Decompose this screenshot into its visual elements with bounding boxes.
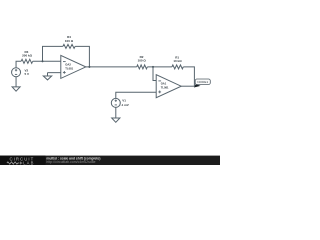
node A junction dot [41,60,43,62]
svg-text:OA1: OA1 [161,82,167,86]
op-amp U2 (OA1 TL081) [156,75,181,98]
svg-text:100 Ω: 100 Ω [65,39,74,43]
ground (V2) [12,87,20,91]
wire R3 to op-amp U1 inverting input [33,60,61,62]
wire V2 top to R3 [16,61,21,67]
wire V2 bottom [15,77,17,87]
voltage source V2 [12,68,21,77]
wire V1 top to op-amp U2 plus input [116,92,156,98]
svg-text:http://circuitlab.com/c4m62sd8: http://circuitlab.com/c4m62sd8e [46,160,95,164]
svg-text:200 kΩ: 200 kΩ [22,54,33,58]
CircuitLab logo zigzag [7,162,19,164]
svg-text:LAB: LAB [23,160,34,165]
node flag NODE1 tail [194,84,201,88]
svg-text:OA2: OA2 [65,62,71,66]
wire op-amp U1 plus input to ground [48,72,61,74]
resistor R2 [137,65,148,69]
resistor R1 [172,65,183,69]
CircuitLab logo battery [20,162,22,165]
svg-text:NODE1: NODE1 [197,80,208,84]
node B junction dot [152,66,154,68]
wire R4 to output node of U1 [75,46,89,67]
svg-text:-1 mV: -1 mV [121,103,129,107]
wire op-amp U2 output [181,85,194,87]
wire node B down to op-amp U2 inverting input [153,67,156,81]
node flag NODE1 box [195,79,210,85]
bottom bar [0,156,220,165]
node output U1 junction dot [88,66,90,68]
svg-text:TL081: TL081 [65,66,73,70]
wire V1 bottom [115,107,117,118]
ground (V1) [112,118,120,122]
resistor R4 [63,44,75,48]
logo dark box [0,156,46,165]
svg-text:10 kΩ: 10 kΩ [173,59,182,63]
svg-text:5 V: 5 V [25,72,30,76]
svg-text:100 Ω: 100 Ω [138,59,147,63]
svg-text:TL081: TL081 [161,86,169,90]
resistor R3 [21,59,33,63]
wire R1 to output of U2 [183,67,194,86]
wire R2 to node B [147,66,172,68]
wire op-amp U1 output to R2 [86,66,137,68]
wire feedback up from node A [43,46,63,61]
op-amp U1 (OA2 TL081) [61,55,86,78]
voltage source V1 [111,98,120,107]
svg-text:V1: V1 [122,99,126,103]
ground (op-amp U1) [43,73,51,80]
